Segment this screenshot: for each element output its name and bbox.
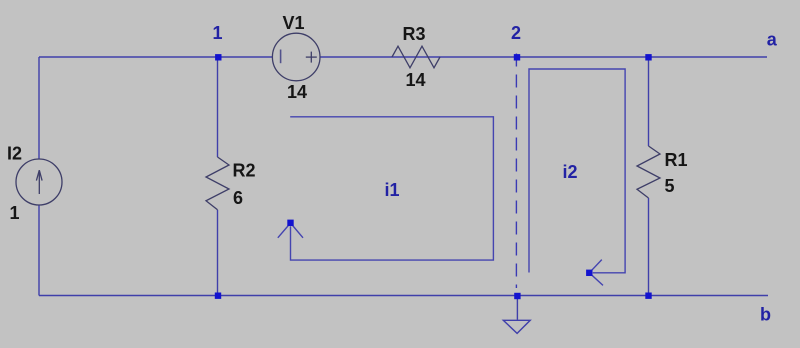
svg-text:b: b [760, 304, 771, 324]
svg-text:2: 2 [511, 23, 521, 43]
svg-text:5: 5 [665, 176, 675, 196]
svg-text:14: 14 [287, 82, 307, 102]
svg-text:14: 14 [406, 70, 426, 90]
svg-text:6: 6 [233, 188, 243, 208]
svg-text:R1: R1 [665, 150, 688, 170]
svg-text:a: a [767, 29, 778, 49]
svg-text:R3: R3 [403, 24, 426, 44]
svg-text:V1: V1 [283, 13, 305, 33]
svg-text:i1: i1 [385, 180, 400, 200]
svg-text:R2: R2 [233, 161, 256, 181]
svg-text:1: 1 [213, 23, 223, 43]
svg-text:1: 1 [10, 203, 20, 223]
svg-text:i2: i2 [563, 162, 578, 182]
svg-text:I2: I2 [7, 144, 22, 164]
